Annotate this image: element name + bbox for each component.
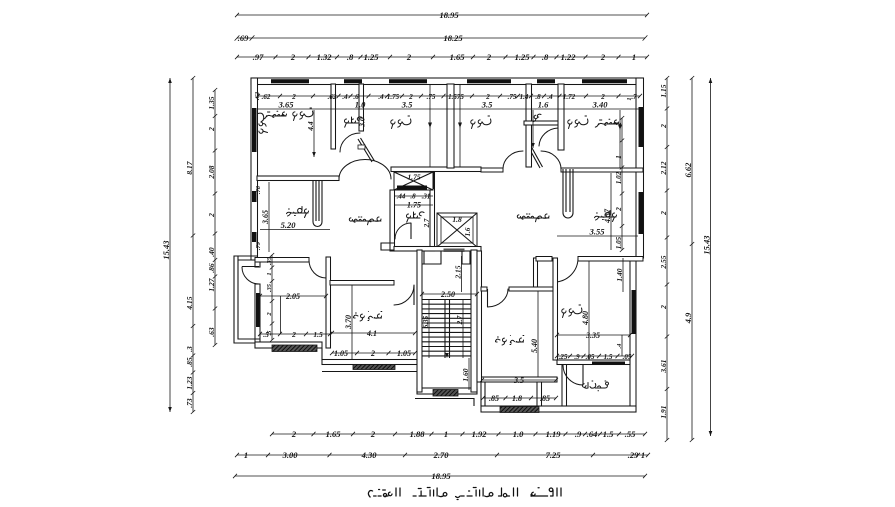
right inner vdim: [615, 116, 624, 252]
dim 3.5: [480, 376, 558, 385]
stair bottom window: [433, 390, 458, 397]
svg-text:1: 1: [266, 272, 273, 275]
top dim 18.95: [235, 10, 649, 20]
svg-text:1.0: 1.0: [513, 429, 524, 439]
label hammam core: [407, 212, 425, 222]
svg-text:4.1: 4.1: [366, 329, 377, 338]
label kitchen left: [287, 207, 309, 218]
svg-text:2.55: 2.55: [659, 255, 668, 269]
BR bedroom bottom window: [592, 362, 625, 365]
svg-text:1: 1: [244, 450, 248, 460]
duct vent: [397, 186, 427, 190]
svg-text:.62: .62: [328, 93, 337, 101]
bottom dim chain row2: [235, 450, 650, 460]
svg-text:18.25: 18.25: [443, 33, 463, 43]
label nom bed2: [391, 116, 411, 129]
svg-text:2: 2: [266, 312, 273, 317]
hall wall black: [431, 172, 435, 189]
left inner vchain: [266, 253, 274, 342]
svg-text:1.8: 1.8: [452, 215, 462, 224]
svg-text:1.6: 1.6: [538, 100, 549, 110]
svg-text:2: 2: [659, 124, 668, 129]
right passage right arch: [541, 151, 561, 170]
svg-text:18.95: 18.95: [431, 471, 451, 481]
svg-text:2: 2: [486, 52, 492, 62]
top exterior wall: [251, 78, 643, 85]
svg-text:1.91: 1.91: [659, 405, 668, 418]
svg-text:1: 1: [444, 429, 448, 439]
svg-text:.78: .78: [255, 185, 262, 194]
dim 4.1: [330, 329, 417, 338]
wc bottom wall: [524, 121, 563, 125]
svg-text:15.43: 15.43: [701, 235, 711, 255]
elevator shaft with X: [437, 213, 477, 247]
left dim 15.43: [161, 78, 172, 412]
svg-text:.25: .25: [559, 353, 568, 361]
wall bed3/wc: [526, 84, 532, 167]
wc door arc: [539, 128, 558, 146]
svg-text:1.05: 1.05: [397, 349, 411, 358]
svg-text:5.40: 5.40: [530, 339, 539, 353]
room2 top wall + door: [330, 281, 394, 286]
svg-text:1.72: 1.72: [563, 93, 576, 101]
inner dim row 2: [258, 100, 640, 110]
right dim chain 2: [683, 76, 694, 442]
stair vdim: [422, 300, 430, 358]
svg-text:1: 1: [615, 155, 623, 159]
svg-text:3.40: 3.40: [592, 100, 609, 110]
caption arabic bottom: [368, 488, 561, 500]
left wall lower room: [255, 284, 260, 348]
svg-text:3.55: 3.55: [589, 227, 606, 237]
label living left: [349, 217, 381, 225]
svg-text:2: 2: [207, 127, 216, 132]
svg-text:1.05: 1.05: [615, 236, 623, 249]
dim 3.35: [555, 331, 632, 340]
svg-text:1.22: 1.22: [561, 52, 577, 62]
top wall window lintel: [389, 79, 427, 83]
svg-text:.05: .05: [586, 353, 595, 361]
svg-text:1.5: 1.5: [604, 353, 613, 361]
svg-text:.86: .86: [207, 263, 216, 273]
svg-text:.8: .8: [542, 52, 549, 62]
label nom master-right: [568, 116, 588, 129]
row y334 left: [258, 330, 332, 339]
svg-text:2.7: 2.7: [423, 218, 431, 228]
wall bed2/bed3: [447, 84, 454, 168]
svg-text:6.62: 6.62: [683, 162, 693, 178]
left wall door jamb: [255, 258, 260, 267]
top wall window lintel: [537, 79, 555, 83]
svg-text:2.08: 2.08: [207, 165, 216, 179]
svg-text:.05: .05: [623, 353, 632, 361]
svg-text:1.5: 1.5: [603, 429, 614, 439]
top wall window lintel: [582, 79, 627, 83]
left wall window: [252, 191, 257, 202]
guest room bottom wall: [481, 377, 557, 382]
veranda left wall: [562, 364, 567, 406]
svg-text:.44: .44: [397, 193, 406, 201]
room2 bottom wall: [322, 360, 417, 365]
dim 5.40: [530, 291, 539, 377]
right dim 15.43: [701, 78, 712, 436]
label master (top-left): [263, 111, 286, 119]
right passage door leaf: [530, 148, 543, 168]
left exterior wall upper: [251, 78, 258, 260]
left wall window: [252, 232, 257, 242]
bottom-right bedroom top wall + door: [536, 257, 552, 262]
left passage door leaf: [358, 138, 375, 162]
svg-text:.7: .7: [631, 93, 637, 101]
svg-text:.79: .79: [255, 241, 262, 250]
svg-text:.55: .55: [625, 429, 636, 439]
svg-text:.3: .3: [185, 346, 194, 352]
right wall window: [639, 192, 644, 234]
stair stringer: [444, 300, 446, 359]
left wall window: [252, 108, 257, 152]
svg-text:.69: .69: [238, 33, 249, 43]
svg-text:1.575: 1.575: [448, 93, 464, 101]
row .25 .9 .05 1.5 .05: [555, 353, 634, 361]
stair left wall: [417, 250, 422, 392]
top dim chain row3: [235, 52, 649, 62]
left dim chain 2: [185, 76, 195, 414]
svg-text:.31: .31: [422, 193, 431, 201]
svg-text:1.19: 1.19: [546, 429, 562, 439]
svg-text:18.95: 18.95: [439, 10, 459, 20]
right exterior wall lower: [630, 258, 636, 412]
svg-text:1.25: 1.25: [364, 52, 380, 62]
right kitchen vdim: [603, 173, 612, 250]
svg-text:.85: .85: [540, 394, 550, 403]
veranda door arc: [563, 365, 583, 385]
svg-text:1.92: 1.92: [472, 429, 488, 439]
corridor wall: [534, 258, 538, 287]
label master right: [595, 119, 618, 127]
label nom bottom-right bedroom: [562, 305, 582, 318]
label nom bed3: [471, 116, 491, 129]
label guests room2: [353, 312, 381, 322]
svg-text:.85: .85: [185, 357, 194, 367]
svg-text:.9: .9: [575, 429, 582, 439]
porch left wall: [480, 382, 482, 406]
svg-text:7.25: 7.25: [546, 450, 562, 460]
svg-text:1.75: 1.75: [407, 173, 420, 182]
svg-text:2: 2: [406, 52, 412, 62]
svg-text:4.9: 4.9: [683, 312, 693, 324]
inner dim row top: [256, 93, 642, 101]
svg-text:3.5: 3.5: [401, 100, 413, 110]
lower-left room top wall + door: [255, 258, 309, 263]
svg-text:2: 2: [659, 305, 668, 310]
svg-text:1.35: 1.35: [207, 96, 216, 109]
entrance step right: [462, 251, 478, 264]
svg-text:1.65: 1.65: [326, 429, 342, 439]
svg-text:1.02: 1.02: [615, 171, 623, 184]
svg-text:4.80: 4.80: [581, 311, 590, 326]
svg-text:1.25: 1.25: [515, 52, 531, 62]
svg-text:1.5: 1.5: [313, 330, 323, 339]
bottom dim 18.95: [233, 471, 647, 481]
left balcony door leaf + arc: [242, 266, 259, 268]
svg-text:.75: .75: [427, 93, 436, 101]
row 1.05 2 1.05: [330, 349, 417, 358]
svg-text:3.35: 3.35: [585, 331, 600, 340]
leader arrows: [312, 110, 316, 157]
left lower wall window: [256, 293, 260, 327]
svg-text:2.50: 2.50: [440, 290, 455, 299]
duct dims: [394, 193, 433, 201]
svg-text:1.4: 1.4: [520, 93, 529, 101]
label kitchen right: [595, 211, 617, 222]
bottom-right bedroom left wall: [553, 258, 558, 360]
label veranda: [582, 381, 608, 391]
svg-text:1.0: 1.0: [355, 100, 366, 110]
svg-text:.8: .8: [347, 52, 354, 62]
guest room top wall + door: [481, 287, 487, 291]
svg-text:.62: .62: [254, 91, 261, 100]
duct shaft with X: [394, 172, 433, 190]
right wall window: [639, 107, 644, 147]
svg-text:1.8: 1.8: [512, 394, 522, 403]
svg-text:.62: .62: [262, 93, 271, 101]
stair tower bottom wall: [417, 388, 477, 394]
svg-text:.40: .40: [207, 247, 216, 257]
svg-text:1.23: 1.23: [185, 376, 194, 389]
svg-text:2: 2: [207, 213, 216, 218]
hall left wall: [430, 172, 435, 252]
top wall window lintel: [271, 79, 309, 83]
dim 4.80: [581, 261, 590, 360]
label hammam top: [345, 117, 363, 127]
svg-text:.75: .75: [508, 93, 517, 101]
left balcony walls: [234, 256, 260, 343]
label living right: [517, 214, 549, 222]
svg-text:.8: .8: [410, 193, 416, 201]
left dim chain 3: [207, 88, 217, 347]
top wall window lintel: [344, 79, 362, 83]
svg-text:.73: .73: [185, 398, 194, 408]
svg-text:3.0: 3.0: [358, 117, 367, 128]
right passage left arch: [503, 151, 523, 170]
hall bottom wall: [394, 247, 481, 252]
svg-text:.5: .5: [266, 330, 273, 336]
svg-text:2: 2: [659, 211, 668, 216]
svg-text:1.65: 1.65: [450, 52, 466, 62]
label nom (top-left): [293, 108, 313, 121]
porch right wall: [537, 382, 542, 406]
row .85 1.8 .85: [481, 394, 558, 403]
entrance threshold: [444, 249, 465, 253]
svg-text:4.4: 4.4: [306, 121, 315, 132]
svg-text:3.65: 3.65: [278, 100, 295, 110]
dim 3.70: [344, 285, 353, 359]
svg-text:1: 1: [632, 52, 636, 62]
svg-text:6.35: 6.35: [422, 315, 430, 328]
kitchen top wall: [257, 176, 339, 181]
svg-text:3.61: 3.61: [659, 359, 668, 373]
porch & veranda bottom wall: [481, 406, 636, 412]
svg-text:.35: .35: [266, 283, 273, 292]
bottom-right bedroom bottom wall: [557, 360, 630, 365]
svg-text:2.12: 2.12: [659, 161, 668, 175]
svg-text:.4: .4: [378, 93, 384, 101]
svg-text:.35: .35: [266, 256, 273, 265]
svg-text:1.15: 1.15: [659, 84, 668, 97]
svg-text:2: 2: [615, 207, 623, 212]
label guests room: [495, 336, 523, 346]
svg-text:2.7: 2.7: [456, 315, 464, 325]
right exterior wall upper: [636, 78, 644, 258]
svg-text:1: 1: [641, 450, 645, 460]
lower-left bottom window: [272, 345, 317, 352]
svg-text:1.27: 1.27: [207, 278, 216, 291]
svg-text:2: 2: [291, 429, 297, 439]
label wc: [533, 114, 541, 122]
svg-text:2: 2: [600, 52, 606, 62]
right dim chain 1: [659, 76, 669, 442]
room2 bottom window: [353, 365, 395, 370]
right kitchen peninsula: [563, 169, 573, 218]
svg-text:.64: .64: [587, 429, 598, 439]
wall bed1/bath: [331, 84, 336, 149]
svg-text:2: 2: [290, 52, 296, 62]
svg-text:.4: .4: [616, 343, 623, 349]
svg-text:4.30: 4.30: [361, 450, 378, 460]
right lower wall window: [632, 290, 636, 334]
dim 2.15: [453, 256, 462, 292]
lower-left room bottom wall: [255, 342, 322, 348]
wall between lower-left rooms: [326, 257, 331, 348]
svg-text:4.15: 4.15: [185, 296, 194, 310]
dim 2.05: [258, 292, 328, 301]
bottom dim chain row1: [270, 429, 647, 439]
staircase treads: [422, 300, 471, 356]
guest room left wall: [477, 251, 482, 382]
svg-text:3.70: 3.70: [344, 315, 353, 330]
svg-text:1.88: 1.88: [410, 429, 426, 439]
svg-text:2: 2: [370, 349, 375, 358]
svg-text:2.15: 2.15: [453, 265, 462, 279]
hall bath door arc: [395, 223, 411, 239]
top dim .69 + 18.25: [235, 33, 648, 43]
LL room vertical dim line: [280, 296, 282, 334]
wc right wall: [558, 84, 564, 150]
kitchen peninsula: [313, 180, 322, 227]
svg-text:.9: .9: [574, 353, 580, 361]
svg-text:1.60: 1.60: [461, 368, 470, 381]
bath core left wall: [390, 190, 395, 251]
stair vdim2: [456, 300, 464, 358]
svg-text:1.75: 1.75: [387, 93, 400, 101]
svg-text:.97: .97: [253, 52, 264, 62]
dim 1.60: [461, 358, 470, 390]
svg-text:3.65: 3.65: [261, 210, 270, 225]
label nom vertical left wall: [255, 113, 268, 133]
svg-text:.4: .4: [342, 93, 348, 101]
svg-text:1.6: 1.6: [464, 227, 472, 236]
kitchen vdim: [261, 182, 270, 252]
svg-text:15.43: 15.43: [161, 240, 171, 260]
svg-text:.85: .85: [489, 394, 499, 403]
dim 1.40: [615, 258, 624, 292]
svg-text:2: 2: [291, 330, 296, 339]
svg-text:3.5: 3.5: [481, 100, 493, 110]
entrance step left: [418, 251, 441, 264]
svg-text:1.05: 1.05: [334, 349, 348, 358]
living sw wall stub: [381, 243, 394, 250]
svg-text:1.75: 1.75: [407, 201, 421, 210]
svg-text:8.17: 8.17: [185, 161, 194, 174]
right living top wall with door gaps: [481, 168, 503, 172]
left passage arch: [339, 160, 391, 180]
bath door arc: [340, 133, 360, 152]
svg-text:1.40: 1.40: [615, 268, 624, 281]
svg-text:1.32: 1.32: [317, 52, 333, 62]
stair right wall: [471, 250, 477, 392]
top wall window lintel: [467, 79, 511, 83]
porch bottom window: [500, 407, 539, 413]
svg-text:3.00: 3.00: [282, 450, 299, 460]
svg-text:.63: .63: [207, 327, 216, 337]
dim 2.50: [420, 290, 479, 299]
svg-text:.29: .29: [628, 450, 639, 460]
svg-text:2.05: 2.05: [285, 292, 300, 301]
svg-text:5.20: 5.20: [281, 220, 297, 230]
svg-text:2: 2: [370, 429, 376, 439]
wall bath/bed2: [359, 84, 364, 131]
svg-text:3.5: 3.5: [513, 376, 524, 385]
svg-text:2.70: 2.70: [433, 450, 450, 460]
hall top wall: [391, 167, 481, 172]
